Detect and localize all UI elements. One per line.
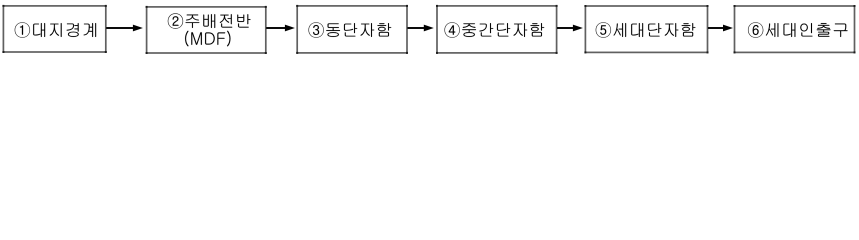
flow diagram: 대지경계 → 주배전반(MDF) → 동단자함 → 중간단자함 → 세대단자함 → 세대인출구: [0, 0, 859, 59]
box 2 주배전반(MDF): [146, 6, 267, 54]
arrow 5 (connector): [708, 25, 733, 32]
label box5 text ⑤세대단자함: [596, 22, 696, 37]
box 4 중간단자함: [436, 5, 558, 54]
box 3 동단자함: [296, 5, 408, 54]
label box6 text ⑥세대인출구: [748, 22, 848, 37]
box 5 세대단자함: [584, 5, 708, 53]
box 1 대지경계: [2, 5, 106, 53]
arrow 3 (connector): [407, 25, 433, 32]
arrow 4 (connector): [557, 25, 583, 32]
label box4 text ④중간단자함: [444, 22, 544, 37]
label box2 text line1 ②주배전반: [168, 13, 251, 28]
arrow 2 (connector): [266, 25, 295, 32]
label box1 text ①대지경계: [15, 22, 96, 37]
box 6 세대인출구: [734, 5, 856, 53]
arrow 1 (connector): [106, 25, 143, 32]
label box2 text line2 (MDF): [185, 31, 230, 47]
label box3 text ③동단자함: [308, 22, 391, 37]
